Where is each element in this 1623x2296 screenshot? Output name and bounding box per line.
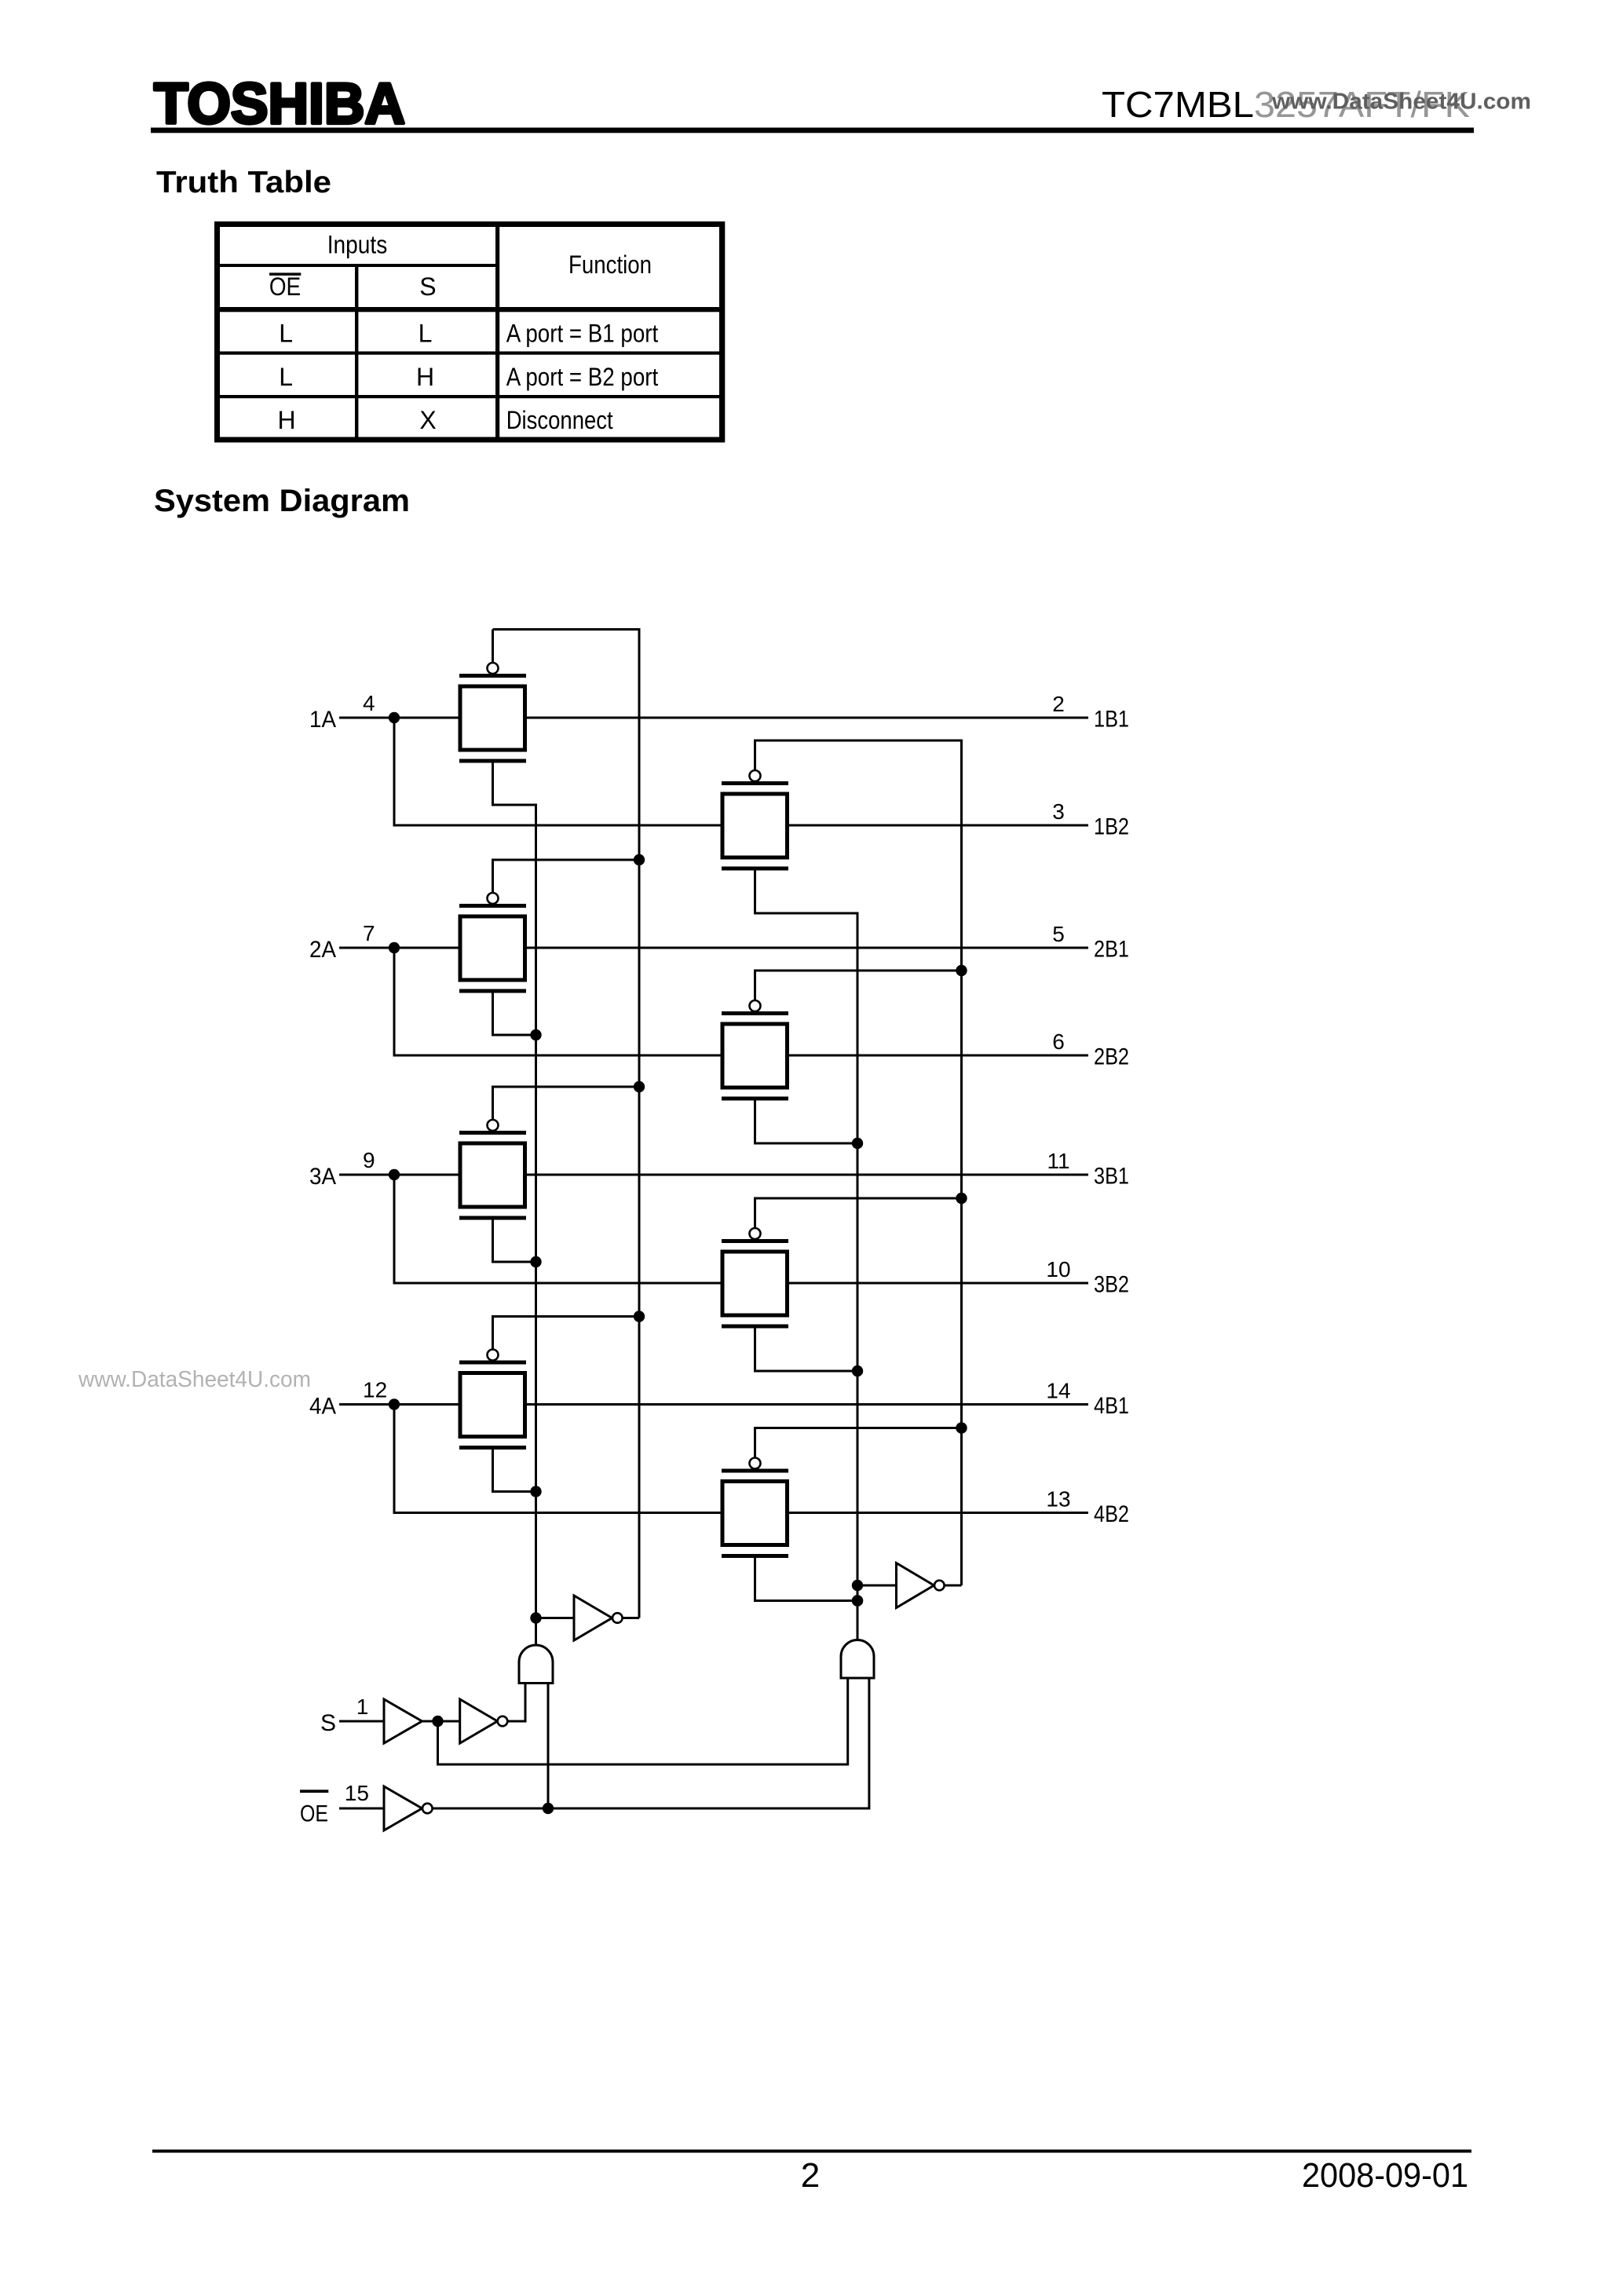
node 4A junction bbox=[389, 1398, 400, 1409]
svg-text:H: H bbox=[278, 406, 296, 434]
wire net S2B2 (right column top-gate trunk): from switch SW1B2 gate over and down to inverter INV2 output bbox=[755, 740, 962, 1585]
svg-text:13: 13 bbox=[1046, 1487, 1070, 1512]
wire bottom gate of switch SW4A to trunk bbox=[493, 1450, 536, 1492]
svg-text:14: 14 bbox=[1046, 1379, 1070, 1403]
wire bottom gate of switch SW3A to trunk bbox=[493, 1220, 536, 1263]
svg-text:10: 10 bbox=[1046, 1257, 1070, 1281]
transistor pass-switch SW1B2 (A port to B2) (top gate bar with bubble) bbox=[722, 781, 788, 785]
inverter INV3 bubble bbox=[498, 1717, 508, 1727]
wire S input line (pin 1) bbox=[339, 1720, 384, 1723]
inverter INV2 triangle bbox=[897, 1563, 934, 1608]
transistor pass-switch SW1B2 (A port to B2) bottom gate bar bbox=[722, 867, 788, 871]
wire top gate of switch SW2A to trunk bbox=[493, 860, 640, 893]
node trunk junction bottom gate SW3B2 bbox=[852, 1366, 863, 1377]
wire top gate of switch SW1A up to trunk corner bbox=[492, 630, 494, 664]
wire INV3 output up to AND1 left input bbox=[507, 1684, 525, 1722]
inverter INV1 triangle bbox=[574, 1596, 612, 1640]
svg-text:System Diagram: System Diagram bbox=[154, 484, 410, 518]
svg-text:www.DataSheet4U.com: www.DataSheet4U.com bbox=[1271, 90, 1531, 115]
svg-text:3B2: 3B2 bbox=[1094, 1272, 1129, 1298]
node trunk junction bottom gate SW2B2 bbox=[852, 1138, 863, 1149]
inverter INV2 bubble bbox=[934, 1581, 945, 1591]
svg-text:1B1: 1B1 bbox=[1094, 707, 1129, 733]
wire top gate of switch SW4A to trunk bbox=[493, 1317, 640, 1350]
transistor pass-switch SW2A (A port to B1) (top gate bar with bubble) bbox=[459, 904, 526, 908]
header rule bbox=[151, 128, 1474, 133]
footer rule bbox=[152, 2150, 1471, 2153]
truth table column divider OE|S bbox=[355, 264, 358, 442]
node trunk junction top gate SW2A bbox=[634, 854, 645, 865]
transistor pass-switch SW3A (A port to B1) bottom gate bar bbox=[459, 1216, 526, 1220]
node trunk junction top gate SW4A bbox=[634, 1311, 645, 1322]
inverter INV4 (OE inverter) triangle bbox=[384, 1786, 422, 1830]
truth table outer border bottom bbox=[214, 437, 725, 443]
wire branch from 3A node down and right to 3B2 switch and output (pin 10) bbox=[394, 1175, 1088, 1283]
AND gate AND1 (S NAND-style dome, output up to left bottom-gate trunk) bbox=[519, 1645, 553, 1684]
svg-text:5: 5 bbox=[1052, 922, 1065, 946]
truth table header separator bbox=[214, 307, 725, 312]
wire bottom gate of switch SW3B2 to trunk bbox=[755, 1329, 858, 1372]
svg-text:Truth Table: Truth Table bbox=[156, 166, 331, 199]
wire top gate of switch SW2B2 to trunk bbox=[755, 971, 962, 1000]
transistor pass-switch SW3B2 (A port to B2) body box bbox=[722, 1252, 788, 1315]
node trunk junction top gate SW3A bbox=[634, 1081, 645, 1092]
node 3A junction bbox=[389, 1169, 400, 1180]
wire OE input line (pin 15) bbox=[339, 1808, 384, 1810]
transistor pass-switch SW3A (A port to B1) body box bbox=[460, 1143, 525, 1207]
svg-text:4B1: 4B1 bbox=[1094, 1393, 1129, 1419]
inverter INV4 bubble bbox=[422, 1804, 433, 1814]
transistor pass-switch SW2A (A port to B1) bottom gate bar bbox=[459, 989, 526, 993]
truth table outer border top bbox=[214, 221, 725, 227]
AND gate AND1 right input wire down to OE line bbox=[547, 1684, 550, 1809]
svg-text:12: 12 bbox=[363, 1378, 387, 1402]
transistor pass-switch SW2B2 (A port to B2) (top gate bar with bubble) bbox=[722, 1011, 788, 1015]
svg-text:7: 7 bbox=[363, 921, 375, 945]
svg-text:15: 15 bbox=[345, 1781, 369, 1805]
transistor pass-switch SW2A (A port to B1) body box bbox=[460, 916, 525, 980]
wire INV4 output right to AND2 right input bbox=[433, 1678, 869, 1808]
transistor pass-switch SW4A (A port to B1) bottom gate bar bbox=[459, 1446, 526, 1450]
wire net S1B (left column bottom-gate trunk): from switch SW1A bottom gate down to AND1 output node bbox=[493, 763, 536, 1646]
svg-text:4A: 4A bbox=[309, 1394, 336, 1420]
transistor pass-switch SW4B2 (A port to B2) bottom gate bar bbox=[722, 1554, 788, 1558]
wire net S2B (left column top-gate trunk): from switch SW1A gate over and down to inverter INV1 output bbox=[493, 630, 640, 1618]
inverter INV2 (drives right top-gate trunk) input wire bbox=[857, 1585, 897, 1587]
wire branch from 2A node down and right to 2B2 switch and output (pin 6) bbox=[394, 948, 1088, 1055]
node trunk junction bottom gate SW4A bbox=[530, 1486, 541, 1497]
transistor pass-switch SW4B2 (A port to B2) (top gate bar with bubble) bbox=[722, 1469, 788, 1473]
node trunk junction bottom gate SW4B2 bbox=[852, 1595, 863, 1606]
node trunk junction bottom gate SW3A bbox=[530, 1256, 541, 1267]
svg-text:2: 2 bbox=[801, 2156, 820, 2195]
transistor pass-switch SW4B2 (A port to B2) body box bbox=[722, 1482, 788, 1545]
svg-text:OE: OE bbox=[300, 1801, 328, 1827]
transistor pass-switch SW1A (A port to B1) body box bbox=[460, 686, 525, 750]
node 2A junction bbox=[389, 942, 400, 953]
svg-text:11: 11 bbox=[1047, 1149, 1069, 1173]
wire S buffered branch down and right to AND2 left input bbox=[438, 1678, 848, 1764]
wire top gate of switch SW3A to trunk bbox=[493, 1087, 640, 1120]
wire top gate of switch SW1B2 up to trunk corner bbox=[754, 740, 756, 770]
svg-text:Inputs: Inputs bbox=[327, 231, 388, 259]
svg-text:2008-09-01: 2008-09-01 bbox=[1302, 2156, 1468, 2195]
svg-text:Disconnect: Disconnect bbox=[506, 406, 613, 434]
wire branch from 1A node down and right to 1B2 switch and output (pin 3) bbox=[394, 718, 1088, 825]
node SW4B2 bottom gate junction bbox=[852, 1595, 863, 1606]
AND gate AND2 dome (output up to right bottom-gate trunk) bbox=[841, 1640, 874, 1679]
svg-text:X: X bbox=[419, 406, 436, 434]
wire top gate of switch SW3B2 to trunk bbox=[755, 1198, 962, 1228]
wire bottom gate of switch SW4B2 to trunk bbox=[755, 1558, 858, 1601]
svg-text:H: H bbox=[416, 363, 434, 391]
svg-text:A port = B1 port: A port = B1 port bbox=[506, 320, 659, 348]
node trunk junction top gate SW4B2 bbox=[956, 1422, 967, 1433]
node OE line junction at AND1 input bbox=[543, 1803, 554, 1814]
wire 1A input line through switch to 1B1 (pin 2) bbox=[339, 717, 1088, 719]
node S buffer output junction bbox=[432, 1716, 443, 1727]
wire bottom gate of switch SW2B2 to trunk bbox=[755, 1101, 858, 1144]
svg-text:4B2: 4B2 bbox=[1094, 1501, 1129, 1527]
truth table row divider 1 bbox=[217, 352, 722, 355]
svg-text:4: 4 bbox=[363, 691, 375, 715]
truth table outer border left bbox=[214, 221, 220, 442]
svg-text:TC7MBL: TC7MBL bbox=[1102, 84, 1254, 125]
transistor pass-switch SW3A (A port to B1) (top gate bar with bubble) bbox=[459, 1131, 526, 1135]
inverter INV1 bubble bbox=[612, 1613, 623, 1623]
transistor pass-switch SW3B2 (A port to B2) bottom gate bar bbox=[722, 1325, 788, 1329]
svg-text:2B2: 2B2 bbox=[1094, 1044, 1129, 1070]
svg-text:9: 9 bbox=[363, 1148, 375, 1172]
truth table column divider S|Function bbox=[495, 221, 499, 442]
wire 3A input line through switch to 3B1 (pin 11) bbox=[339, 1174, 1088, 1176]
svg-text:3: 3 bbox=[1052, 799, 1065, 824]
svg-text:1B2: 1B2 bbox=[1094, 814, 1129, 840]
svg-text:S: S bbox=[320, 1710, 336, 1736]
svg-text:Function: Function bbox=[568, 250, 652, 279]
node trunk junction top gate SW2B2 bbox=[956, 965, 967, 976]
transistor pass-switch SW1A (A port to B1) bottom gate bar bbox=[459, 759, 526, 763]
svg-text:OE: OE bbox=[269, 272, 301, 301]
transistor pass-switch SW4A (A port to B1) (top gate bar with bubble) bbox=[459, 1361, 526, 1365]
transistor pass-switch SW4A (A port to B1) body box bbox=[460, 1373, 525, 1437]
inverter INV2 output wire to trunk bbox=[945, 1585, 962, 1587]
svg-text:www.DataSheet4U.com: www.DataSheet4U.com bbox=[78, 1367, 311, 1392]
svg-text:S: S bbox=[419, 272, 436, 301]
svg-text:2B1: 2B1 bbox=[1094, 937, 1129, 963]
svg-text:2A: 2A bbox=[309, 937, 336, 963]
truth table outer border right bbox=[719, 221, 725, 442]
truth table row divider 2 bbox=[217, 395, 722, 398]
svg-text:1: 1 bbox=[356, 1695, 369, 1719]
wire buffer U1 output to inverter INV3 bbox=[422, 1720, 460, 1723]
svg-text:3A: 3A bbox=[309, 1164, 336, 1190]
node AND1 output / INV1 input junction bbox=[530, 1612, 541, 1623]
svg-text:L: L bbox=[419, 320, 433, 348]
wire bottom gate of switch SW2A to trunk bbox=[493, 993, 536, 1036]
svg-text:A port = B2 port: A port = B2 port bbox=[506, 363, 659, 391]
inverter INV1 (drives left top-gate trunk) input wire bbox=[536, 1617, 575, 1619]
wire branch from 4A node down and right to 4B2 switch and output (pin 13) bbox=[394, 1405, 1088, 1513]
truth table divider below Inputs bbox=[217, 264, 497, 267]
svg-text:L: L bbox=[279, 363, 293, 391]
transistor pass-switch SW1A (A port to B1) (top gate bar with bubble) bbox=[459, 674, 526, 678]
wire net S1B2 (right column bottom-gate trunk): from switch SW1B2 bottom gate down to AND2 output node bbox=[755, 871, 858, 1640]
node trunk junction top gate SW3B2 bbox=[956, 1193, 967, 1204]
buffer U1 (S input buffer) triangle bbox=[384, 1699, 422, 1743]
wire 4A input line through switch to 4B1 (pin 14) bbox=[339, 1403, 1088, 1406]
inverter INV3 (S inverter) triangle bbox=[460, 1699, 498, 1743]
wire 2A input line through switch to 2B1 (pin 5) bbox=[339, 947, 1088, 949]
transistor pass-switch SW2B2 (A port to B2) bottom gate bar bbox=[722, 1097, 788, 1101]
svg-text:3B1: 3B1 bbox=[1094, 1164, 1129, 1190]
node INV2 input tap on right trunk bbox=[852, 1580, 863, 1591]
svg-text:TOSHIBA: TOSHIBA bbox=[154, 72, 405, 136]
node trunk junction bottom gate SW2A bbox=[530, 1029, 541, 1040]
svg-text:L: L bbox=[279, 320, 293, 348]
svg-text:2: 2 bbox=[1052, 692, 1065, 716]
node 1A junction bbox=[389, 712, 400, 723]
svg-text:6: 6 bbox=[1052, 1029, 1065, 1054]
transistor pass-switch SW3B2 (A port to B2) (top gate bar with bubble) bbox=[722, 1239, 788, 1243]
transistor pass-switch SW2B2 (A port to B2) body box bbox=[722, 1024, 788, 1088]
svg-text:1A: 1A bbox=[309, 707, 336, 733]
transistor pass-switch SW1B2 (A port to B2) body box bbox=[722, 794, 788, 857]
inverter INV1 output wire to trunk bbox=[623, 1617, 639, 1619]
wire top gate of switch SW4B2 to trunk bbox=[755, 1428, 962, 1458]
